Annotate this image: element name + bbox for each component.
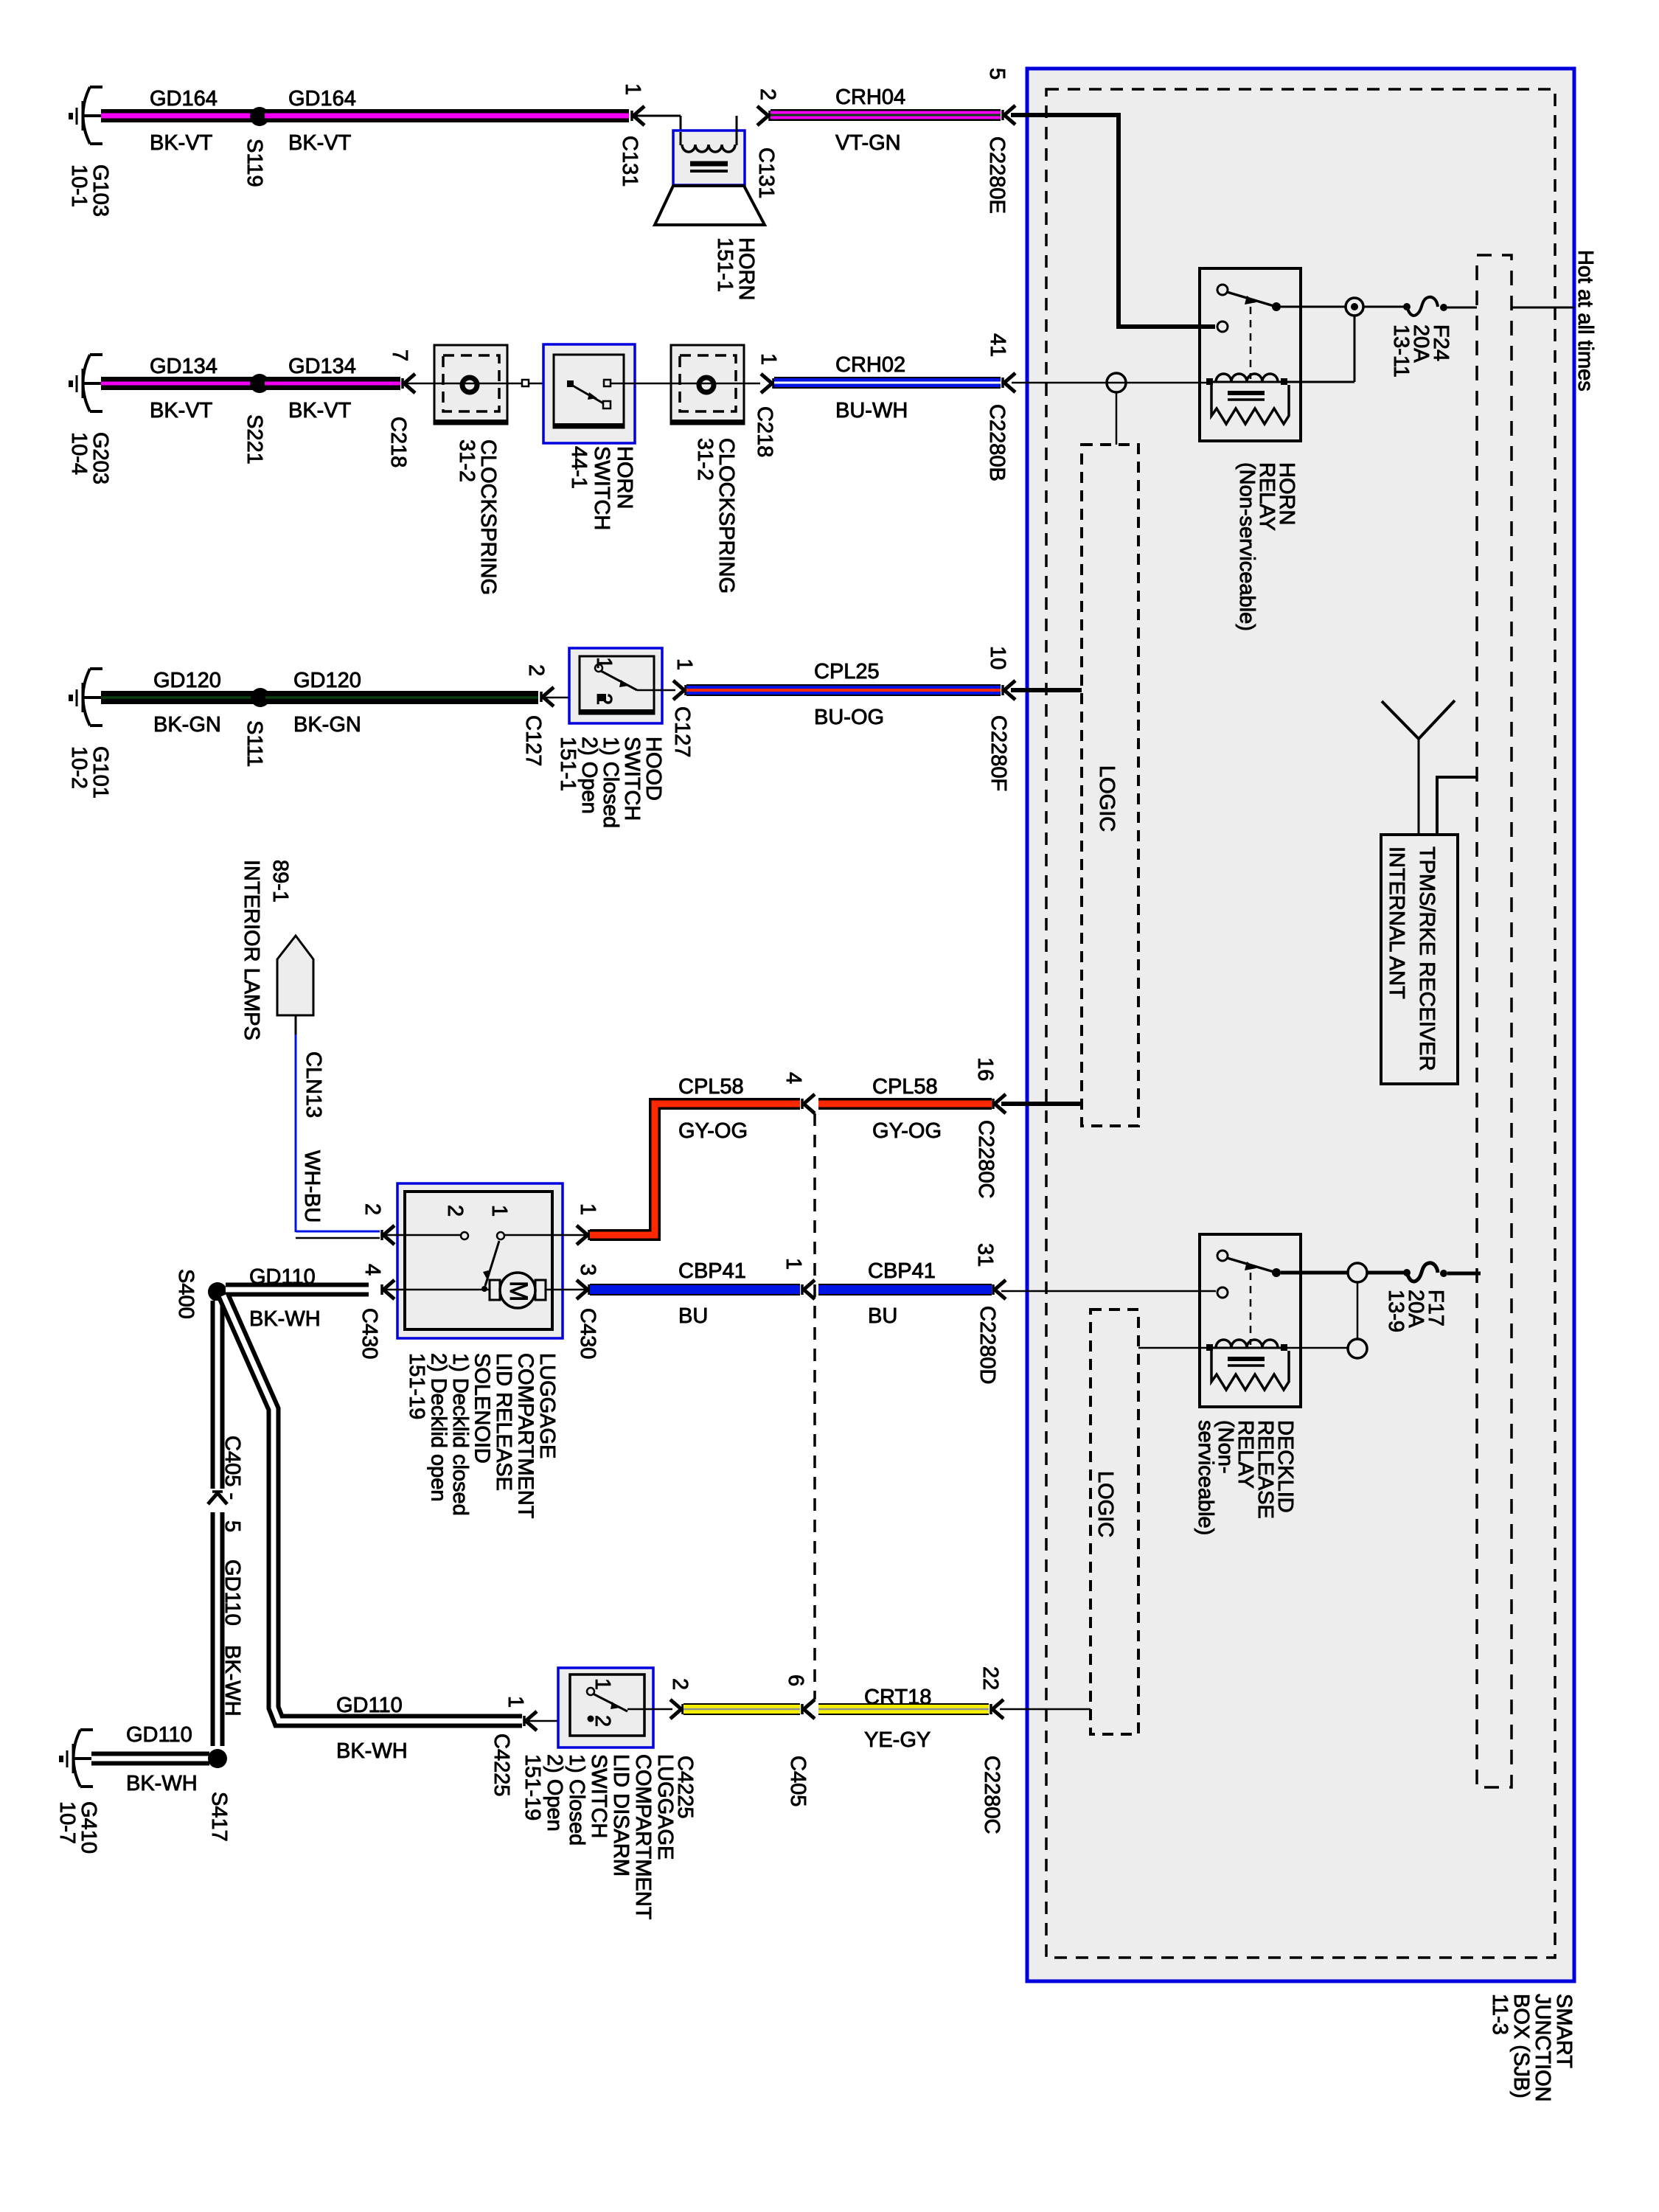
- inline connector C405 pin 5 arrow: [208, 1492, 227, 1504]
- svg-text:31: 31: [973, 1243, 997, 1267]
- wire clockspring to horn switch: [507, 383, 554, 385]
- svg-text:CLN13: CLN13: [302, 1051, 325, 1118]
- svg-text:CRH04: CRH04: [835, 86, 905, 109]
- Hot at all times label: [1573, 250, 1597, 392]
- connector C405 pin 6: [784, 1674, 815, 1806]
- svg-text:LUGGAGECOMPARTMENTLID RELEASES: LUGGAGECOMPARTMENTLID RELEASESOLENOID1) …: [405, 1353, 559, 1519]
- wire hood switch to C127 pin 1: [637, 689, 675, 692]
- svg-text:5: 5: [220, 1520, 244, 1532]
- svg-text:2: 2: [443, 1205, 467, 1217]
- splice S111: [243, 688, 270, 767]
- svg-text:1: 1: [782, 1258, 805, 1270]
- splice S119: [243, 107, 269, 187]
- svg-text:S221: S221: [243, 414, 266, 465]
- splice S417: [207, 1749, 231, 1842]
- svg-text:GD134: GD134: [150, 355, 218, 378]
- svg-text:Hot at all times: Hot at all times: [1573, 250, 1597, 392]
- svg-text:GD110: GD110: [336, 1694, 403, 1717]
- svg-text:CLOCKSPRING31-2: CLOCKSPRING31-2: [693, 438, 738, 594]
- svg-text:C2280F: C2280F: [987, 715, 1010, 791]
- svg-text:GD110: GD110: [126, 1723, 192, 1747]
- luggage compartment lid release solenoid 151-19: [385, 1183, 586, 1519]
- wire CPL58 GY-OG (solenoid to C405): [590, 1075, 800, 1235]
- svg-text:10: 10: [986, 646, 1009, 669]
- svg-text:CPL58: CPL58: [872, 1075, 938, 1099]
- wire horn switch to clockspring right: [610, 383, 760, 385]
- svg-text:1: 1: [757, 353, 780, 365]
- svg-text:1: 1: [504, 1696, 527, 1708]
- wire C2280D to decklid relay: [1001, 1290, 1216, 1293]
- connector C4225 pin 2: [668, 1678, 697, 1818]
- connector C405 pin 1 (CBP41): [782, 1258, 815, 1299]
- wire GD120 BK-GN (S111 to C127): [265, 669, 538, 737]
- svg-text:C127: C127: [670, 706, 694, 757]
- connector C405 pin 4 (CPL58): [782, 1072, 815, 1113]
- horn 151-1: [655, 116, 765, 300]
- svg-text:C2280E: C2280E: [985, 136, 1009, 214]
- wire C2280C to LOGIC box (decklid): [1000, 1708, 1091, 1711]
- smart junction box (SJB) outline: [1027, 69, 1576, 2102]
- svg-text:2: 2: [592, 693, 616, 705]
- svg-text:BK-VT: BK-VT: [150, 131, 213, 155]
- svg-text:BU: BU: [868, 1304, 897, 1328]
- wire terminal to fuse F24: [1363, 306, 1405, 308]
- LOGIC box (horn/hood): [1082, 445, 1138, 1126]
- terminal square (clockspring out): [522, 380, 529, 386]
- wire CRH02 BU-WH (clockspring to SJB): [774, 353, 1001, 422]
- clockspring 31-2 (left): [434, 345, 507, 595]
- svg-text:1: 1: [487, 1205, 511, 1217]
- wire into disarm switch: [527, 1720, 588, 1722]
- svg-text:41: 41: [986, 333, 1009, 357]
- connector C127 pin 1: [670, 658, 696, 757]
- svg-text:F1720A13-9: F1720A13-9: [1384, 1290, 1447, 1332]
- connector C4225 pin 1: [490, 1696, 537, 1796]
- connector C2280C pin 16: [973, 1057, 1006, 1198]
- wire between decklid terminals: [1357, 1282, 1359, 1339]
- wire into hood switch: [544, 697, 600, 699]
- connector C131 pin 1: [618, 83, 644, 187]
- svg-text:BK-WH: BK-WH: [220, 1645, 244, 1717]
- wire CRT18 YE-GY (disarm switch to C405): [684, 1703, 800, 1715]
- svg-text:C131: C131: [618, 136, 641, 187]
- wire fuse to bus (decklid): [1447, 1272, 1481, 1276]
- svg-text:1: 1: [621, 83, 644, 95]
- off-page arrow INTERIOR LAMPS 89-1: [240, 860, 313, 1040]
- svg-text:C430: C430: [576, 1308, 599, 1359]
- svg-text:LOGIC: LOGIC: [1095, 765, 1119, 832]
- svg-text:CBP41: CBP41: [868, 1259, 936, 1283]
- ground G410: [55, 1730, 100, 1854]
- wire CBP41 BU (C405 to SJB): [818, 1259, 992, 1328]
- svg-text:G20310-4: G20310-4: [67, 432, 112, 484]
- svg-text:2: 2: [524, 664, 548, 676]
- SJB inner dashed border: [1046, 89, 1555, 1958]
- svg-text:22: 22: [978, 1666, 1002, 1690]
- ground G203: [67, 355, 112, 484]
- wire CRH04 VT-GN (horn to SJB): [771, 86, 1001, 155]
- wire terminal to fuse F17: [1367, 1271, 1405, 1275]
- wire terminal to LOGIC box: [1116, 392, 1118, 445]
- svg-text:2: 2: [591, 1715, 614, 1727]
- svg-text:S400: S400: [174, 1269, 198, 1319]
- svg-text:2: 2: [668, 1678, 692, 1690]
- svg-text:C4225: C4225: [490, 1733, 513, 1796]
- svg-text:HORNSWITCH44-1: HORNSWITCH44-1: [567, 446, 636, 530]
- fuse F24 20A 13-11: [1389, 297, 1453, 378]
- svg-text:C430: C430: [358, 1308, 381, 1359]
- connector C2280E pin 5: [985, 68, 1015, 214]
- terminal circle upper (decklid): [1348, 1263, 1367, 1282]
- wire LOGIC to decklid coil: [1138, 1347, 1206, 1349]
- svg-text:2: 2: [756, 88, 779, 100]
- svg-text:4: 4: [361, 1264, 384, 1276]
- wire SJB feed to horn relay: [1011, 115, 1215, 327]
- ground G101: [67, 669, 112, 799]
- svg-text:6: 6: [784, 1674, 807, 1686]
- wire into horn: [635, 115, 681, 117]
- wire CPL58 GY-OG (C405 to SJB): [818, 1075, 992, 1143]
- svg-text:CPL25: CPL25: [814, 660, 880, 684]
- svg-text:1: 1: [576, 1203, 599, 1215]
- svg-text:BU: BU: [678, 1304, 708, 1328]
- svg-text:89-1: 89-1: [268, 860, 292, 902]
- splice S400: [174, 1269, 227, 1319]
- svg-text:CRT18: CRT18: [864, 1686, 931, 1709]
- svg-text:G10310-1: G10310-1: [67, 164, 112, 217]
- wire GD134 BK-VT (S221 to C218): [265, 355, 400, 422]
- wire C2280C to LOGIC box: [1001, 1102, 1082, 1106]
- TPMS/RKE receiver internal antenna box: [1381, 835, 1458, 1084]
- fuse F17 20A 13-9: [1384, 1263, 1447, 1332]
- connector C218 pin 7: [386, 349, 415, 467]
- svg-text:C218: C218: [386, 417, 410, 467]
- decklid release relay (Non-serviceable): [1194, 1234, 1301, 1535]
- svg-text:BK-WH: BK-WH: [336, 1739, 408, 1763]
- connector C2280B pin 41: [985, 333, 1015, 481]
- wire GD110 BK-WH (S400 down to S417): [218, 1301, 244, 1746]
- svg-text:SMARTJUNCTIONBOX (SJB)11-3: SMARTJUNCTIONBOX (SJB)11-3: [1488, 1994, 1576, 2102]
- svg-text:16: 16: [973, 1057, 997, 1081]
- wire disarm switch to C4225 pin 2: [627, 1708, 672, 1711]
- svg-text:3: 3: [576, 1264, 599, 1276]
- svg-text:GD110: GD110: [220, 1559, 244, 1626]
- svg-text:CBP41: CBP41: [678, 1259, 746, 1283]
- svg-text:1: 1: [591, 1678, 614, 1690]
- svg-text:VT-GN: VT-GN: [835, 131, 901, 155]
- connector C430 pin 1: [576, 1203, 599, 1245]
- svg-text:C127: C127: [521, 715, 545, 766]
- horn relay coil feed from terminal: [1287, 381, 1354, 383]
- terminal with dot (horn): [1346, 298, 1363, 316]
- svg-text:C2280D: C2280D: [975, 1306, 999, 1384]
- svg-text:BK-GN: BK-GN: [293, 713, 361, 737]
- svg-text:BU-WH: BU-WH: [835, 399, 908, 422]
- terminal circle on horn coil wire: [1107, 373, 1126, 392]
- connector C218 pin 1: [753, 353, 780, 457]
- connector C430 pin 3: [576, 1264, 599, 1359]
- svg-text:C405 -: C405 -: [220, 1436, 244, 1500]
- svg-text:CRH02: CRH02: [835, 353, 905, 377]
- decklid relay coil feed: [1287, 1347, 1348, 1349]
- svg-text:CPL58: CPL58: [678, 1075, 744, 1099]
- svg-text:BU-OG: BU-OG: [814, 706, 884, 729]
- svg-text:C2280B: C2280B: [985, 404, 1009, 481]
- wire CLN13 WH-BU (interior lamps to solenoid): [296, 1015, 380, 1238]
- LOGIC box (decklid): [1091, 1310, 1138, 1734]
- svg-text:BK-GN: BK-GN: [153, 713, 221, 737]
- wire GD164 BK-VT (G103 to S119): [101, 87, 254, 155]
- connector C430 pin 4: [358, 1264, 394, 1359]
- svg-text:S119: S119: [243, 139, 266, 187]
- wire C2280B to horn relay coil: [1012, 382, 1206, 384]
- svg-text:HOODSWITCH1) Closed2) Open151-: HOODSWITCH1) Closed2) Open151-1: [556, 737, 665, 828]
- svg-text:C2280C: C2280C: [980, 1756, 1004, 1834]
- wire GD120 BK-GN (G101 to S111): [101, 669, 255, 737]
- svg-text:INTERNAL ANT: INTERNAL ANT: [1385, 846, 1408, 999]
- wire GD110 BK-WH (G410 to S417): [91, 1723, 209, 1795]
- connector C2280D pin 31: [973, 1243, 1006, 1384]
- svg-text:WH-BU: WH-BU: [300, 1150, 324, 1222]
- svg-text:LUGGAGECOMPARTMENTLID DISARMSW: LUGGAGECOMPARTMENTLID DISARMSWITCH1) Clo…: [521, 1754, 677, 1920]
- wire GD164 BK-VT (S119 to C131): [265, 87, 629, 155]
- terminal circle lower (decklid): [1348, 1339, 1367, 1358]
- svg-text:M: M: [504, 1281, 532, 1301]
- svg-text:G10110-2: G10110-2: [67, 746, 112, 799]
- svg-text:TPMS/RKE RECEIVER: TPMS/RKE RECEIVER: [1415, 846, 1439, 1071]
- svg-text:GD164: GD164: [150, 87, 218, 111]
- svg-text:BK-WH: BK-WH: [126, 1772, 198, 1795]
- decklid relay output to fuse: [1281, 1271, 1348, 1275]
- splice S221: [243, 374, 269, 465]
- svg-text:GY-OG: GY-OG: [872, 1119, 942, 1143]
- wire C2280F to LOGIC box: [1011, 688, 1082, 692]
- horn switch 44-1: [543, 344, 636, 530]
- svg-text:G41010-7: G41010-7: [55, 1801, 100, 1854]
- wire GD110 BK-WH (S400 to C430 pin 4): [226, 1265, 369, 1331]
- horn relay (Non-serviceable): [1200, 268, 1301, 631]
- svg-text:7: 7: [388, 349, 411, 361]
- connector C430 pin 2: [361, 1203, 394, 1245]
- luggage compartment lid disarm switch 151-19: [521, 1668, 677, 1920]
- antenna symbol: [1382, 700, 1455, 835]
- svg-text:S417: S417: [207, 1792, 231, 1842]
- svg-text:GD164: GD164: [288, 87, 356, 111]
- wire bus to Hot at all times: [1512, 307, 1574, 309]
- svg-text:C2280C: C2280C: [974, 1120, 998, 1198]
- svg-text:GY-OG: GY-OG: [678, 1119, 748, 1143]
- wire CBP41 BU (solenoid to C405): [590, 1259, 800, 1328]
- hood switch 151-1: [556, 648, 665, 828]
- svg-text:HORN151-1: HORN151-1: [713, 237, 758, 300]
- antenna feed to bus: [1437, 777, 1476, 835]
- svg-text:GD110: GD110: [249, 1265, 316, 1289]
- SJB internal dashed bus: [1477, 255, 1512, 1787]
- wire C218 to clockspring: [406, 383, 435, 385]
- wire CPL25 BU-OG (hood switch to SJB): [686, 660, 1001, 729]
- svg-text:4: 4: [782, 1072, 805, 1084]
- svg-text:C4225: C4225: [673, 1756, 697, 1818]
- svg-text:BK-VT: BK-VT: [150, 399, 213, 422]
- wire GD134 BK-VT (G203 to S221): [101, 355, 254, 422]
- clockspring 31-2 (right): [671, 345, 744, 594]
- svg-text:LOGIC: LOGIC: [1093, 1471, 1117, 1537]
- ground G103: [67, 87, 112, 217]
- svg-text:2: 2: [361, 1203, 384, 1215]
- connector C2280C pin 22: [978, 1666, 1004, 1834]
- svg-text:GD120: GD120: [293, 669, 361, 692]
- svg-text:YE-GY: YE-GY: [864, 1728, 931, 1752]
- svg-text:C405: C405: [786, 1756, 810, 1806]
- svg-text:1: 1: [672, 658, 696, 670]
- svg-text:5: 5: [985, 68, 1009, 80]
- svg-text:GD134: GD134: [288, 355, 356, 378]
- svg-text:BK-WH: BK-WH: [249, 1307, 321, 1331]
- wire GD110 BK-WH (S400 diagonal to disarm switch): [223, 1295, 522, 1763]
- svg-text:BK-VT: BK-VT: [288, 399, 352, 422]
- connector C131 pin 2: [754, 88, 779, 198]
- svg-text:CLOCKSPRING31-2: CLOCKSPRING31-2: [455, 439, 500, 595]
- horn relay output to fuse: [1281, 306, 1346, 308]
- connector C127 pin 2: [521, 664, 554, 766]
- svg-text:BK-VT: BK-VT: [288, 131, 352, 155]
- wire CRT18 YE-GY (C405 to SJB): [818, 1686, 989, 1752]
- wire fuse to bus: [1447, 307, 1477, 309]
- connector C2280F pin 10: [986, 646, 1015, 791]
- svg-text:S111: S111: [243, 720, 266, 767]
- C405 dashed connector line: [813, 1113, 816, 1700]
- svg-text:GD120: GD120: [153, 669, 221, 692]
- svg-text:C131: C131: [754, 147, 778, 198]
- svg-text:1: 1: [592, 657, 616, 669]
- svg-text:C218: C218: [753, 406, 776, 457]
- svg-text:INTERIOR LAMPS: INTERIOR LAMPS: [240, 860, 263, 1040]
